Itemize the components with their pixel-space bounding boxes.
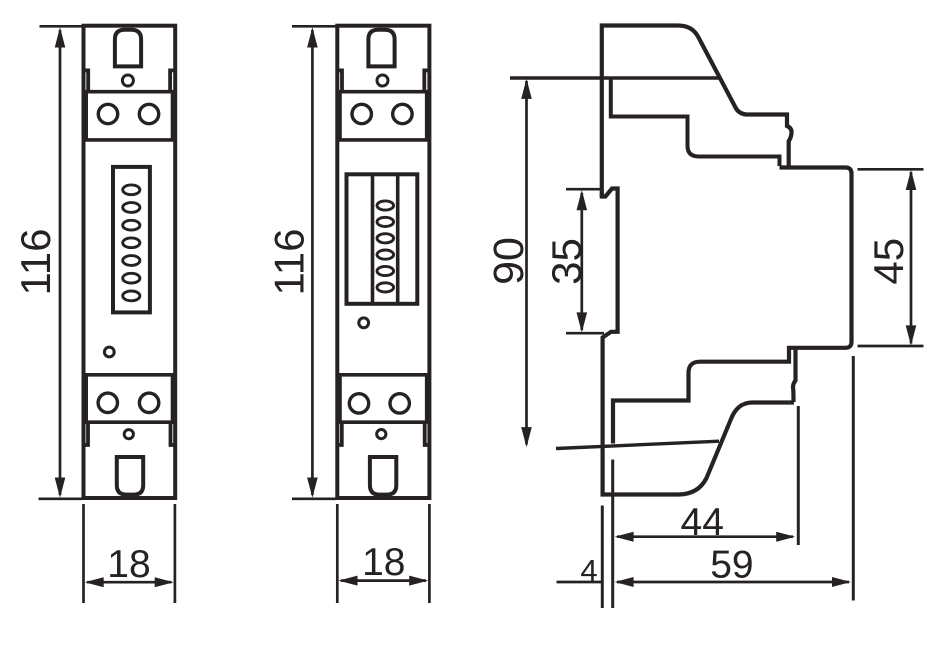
svg-text:116: 116 (12, 229, 59, 296)
svg-text:18: 18 (362, 541, 405, 584)
svg-text:45: 45 (865, 238, 912, 285)
svg-text:44: 44 (681, 501, 724, 544)
svg-text:35: 35 (543, 238, 590, 285)
svg-text:18: 18 (107, 543, 150, 586)
svg-text:116: 116 (265, 229, 312, 296)
svg-text:59: 59 (710, 544, 753, 587)
svg-text:90: 90 (485, 237, 533, 285)
svg-text:4: 4 (580, 553, 597, 588)
